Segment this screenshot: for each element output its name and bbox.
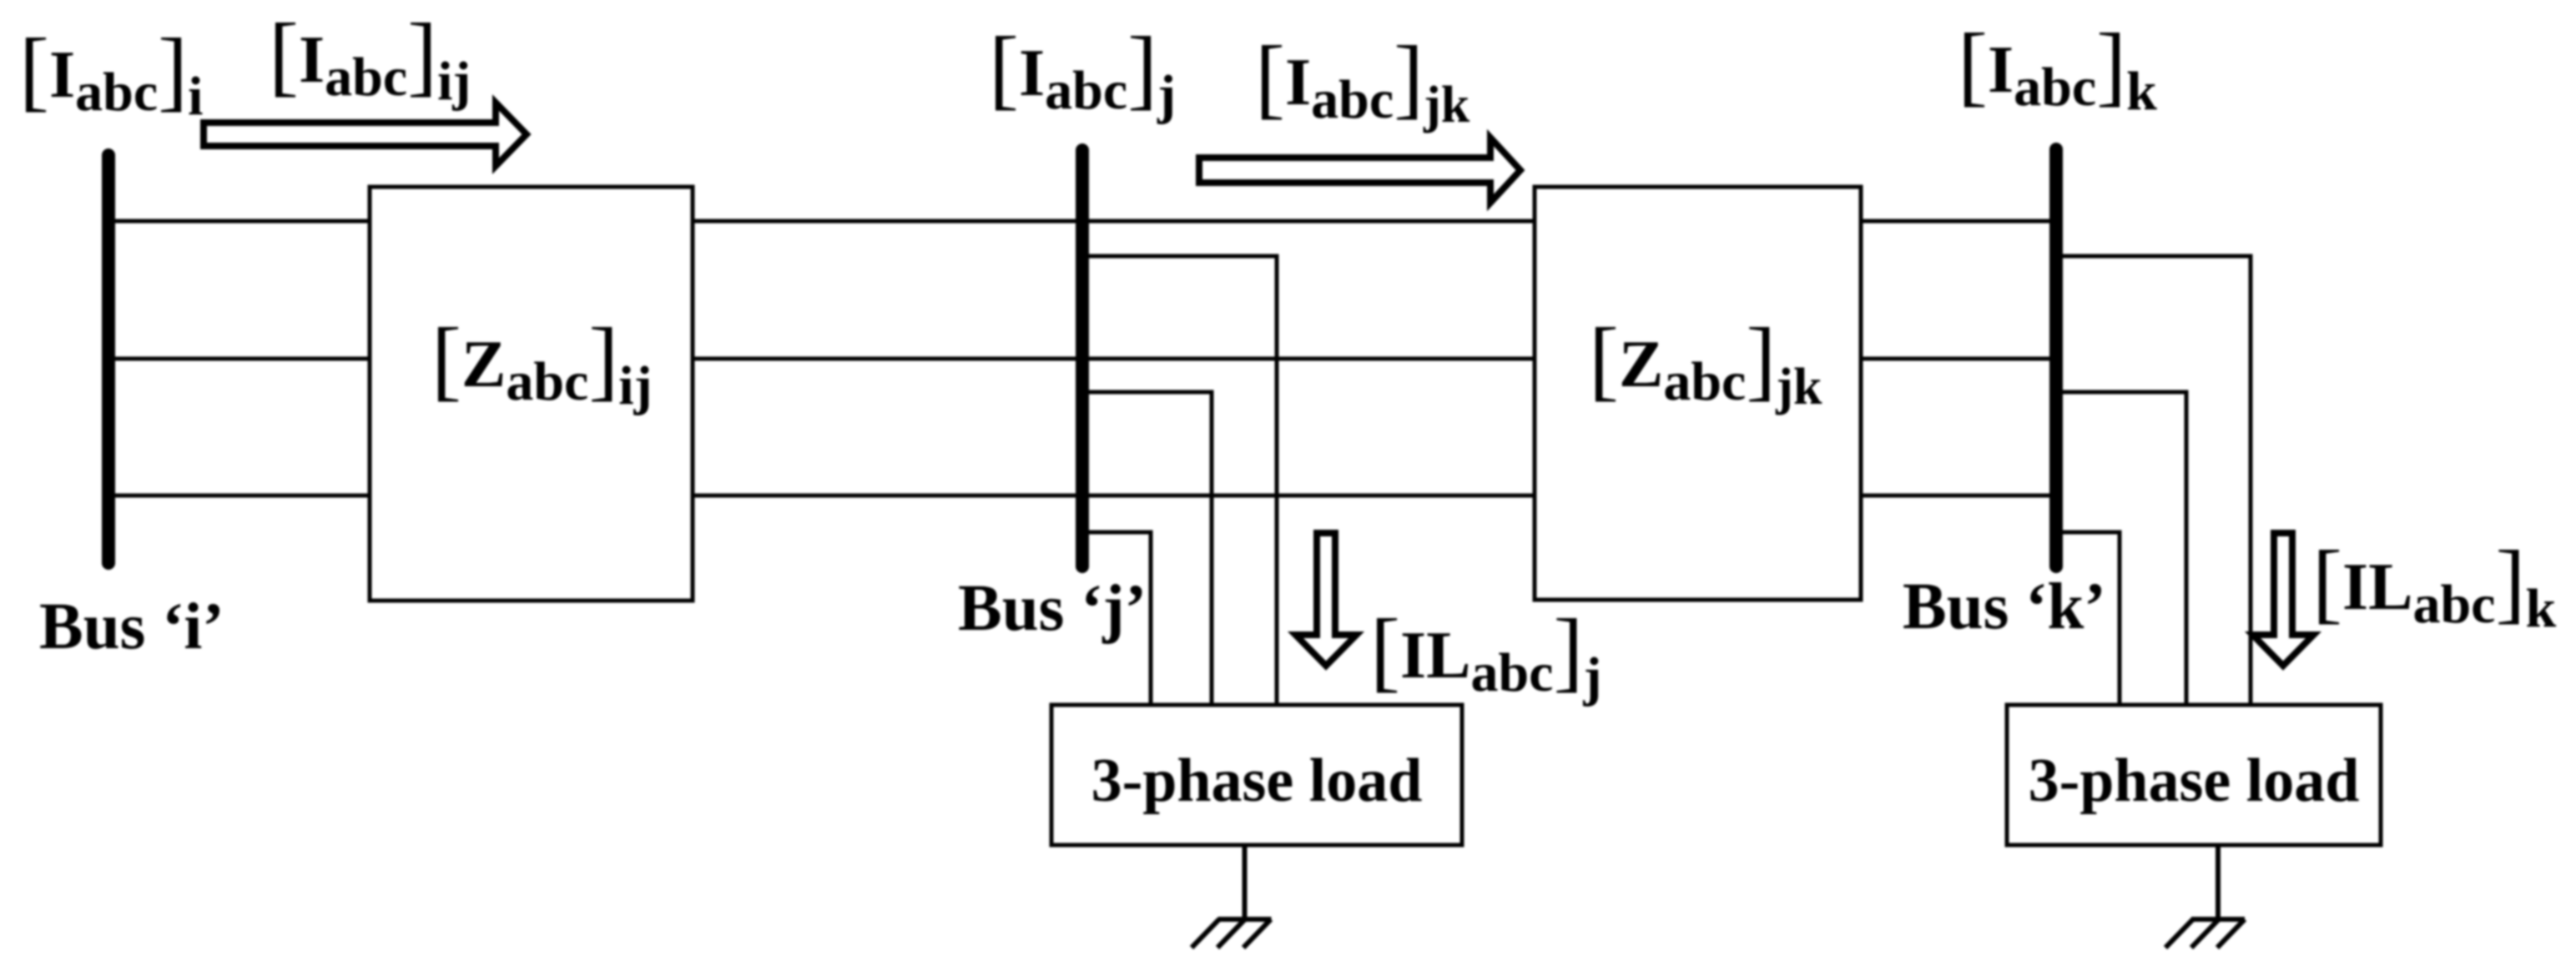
wire phase a: Zjk to bus k (1861, 219, 2056, 224)
wire phase b: Zij to Zjk through bus j (693, 357, 1535, 361)
ground at load j (1192, 845, 1272, 948)
load tap wire c at bus j (1082, 532, 1151, 705)
bus j (1076, 150, 1089, 566)
ground at load k (2165, 845, 2245, 948)
load tap wire a at bus j (1082, 256, 1277, 705)
load tap wire c at bus k (2056, 532, 2120, 705)
current arrow Ijk (1199, 138, 1520, 203)
wire phase a: Zij to Zjk through bus j (693, 219, 1535, 224)
wire phase b: bus i to Zij (108, 357, 370, 361)
wire phase b: Zjk to bus k (1861, 357, 2056, 361)
svg-text:Bus ‘i’: Bus ‘i’ (39, 591, 224, 663)
svg-text:Bus ‘k’: Bus ‘k’ (1903, 571, 2106, 643)
svg-text:3-phase load: 3-phase load (1091, 747, 1423, 815)
load tap wire b at bus j (1082, 392, 1212, 705)
3-phase load box at bus k (2007, 705, 2381, 845)
wire phase a: bus i to Zij (108, 219, 370, 224)
line impedance block Zjk (1535, 187, 1861, 600)
load current arrow ILk (2253, 533, 2314, 666)
svg-text:3-phase load: 3-phase load (2029, 747, 2360, 815)
svg-text:Bus ‘j’: Bus ‘j’ (958, 572, 1147, 645)
3-phase load box at bus j (1051, 705, 1462, 845)
line impedance block Zij (370, 187, 693, 601)
load tap wire a at bus k (2056, 256, 2251, 705)
load current arrow ILj (1296, 533, 1357, 666)
wire phase c: Zij to Zjk through bus j (693, 494, 1535, 498)
bus i (102, 155, 115, 563)
bus k (2049, 149, 2063, 566)
wire phase c: bus i to Zij (108, 494, 370, 498)
wire phase c: Zjk to bus k (1861, 494, 2056, 498)
load tap wire b at bus k (2056, 392, 2186, 705)
current arrow Iij (204, 103, 527, 166)
